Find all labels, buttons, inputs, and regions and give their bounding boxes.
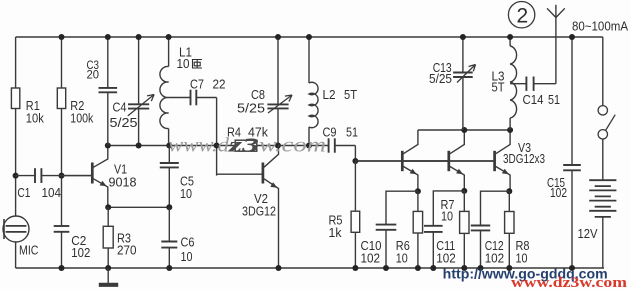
- capacitor C10: [376, 191, 418, 268]
- label R2 100k: [70, 98, 93, 125]
- label MIC: [19, 243, 39, 258]
- trimmer capacitor C13 5/25: [453, 37, 475, 130]
- node V2 emitter bottom: [276, 265, 282, 271]
- node R7 bottom: [461, 265, 467, 271]
- svg-text:102: 102: [550, 185, 567, 200]
- svg-text:270: 270: [117, 243, 137, 258]
- svg-text:22: 22: [213, 77, 226, 92]
- node C8/V2 collector junction: [275, 143, 281, 149]
- svg-text:5T: 5T: [492, 80, 505, 95]
- label C7 22: [190, 77, 226, 92]
- node input junction B: [59, 173, 65, 179]
- svg-text:C6: C6: [181, 235, 195, 250]
- resistor R5: [351, 161, 360, 268]
- node C10 bottom: [383, 265, 389, 271]
- node V3b emitter junction: [461, 188, 467, 194]
- node C5/C6 junction: [166, 204, 172, 210]
- watermark http://www.go-gddq.com: [443, 266, 608, 281]
- node C3 top: [105, 34, 111, 40]
- trimmer capacitor C4 5/25: [128, 37, 154, 146]
- capacitor C9: [329, 138, 356, 152]
- ground: [99, 268, 118, 285]
- svg-text:10k: 10k: [26, 110, 44, 125]
- wire R2/C2 column: [61, 37, 63, 268]
- label C4 5/25: [110, 99, 138, 130]
- label C1 104: [17, 185, 61, 200]
- label circled 2: [508, 2, 534, 28]
- node L3 top: [507, 34, 513, 40]
- label C9 51: [323, 124, 359, 139]
- svg-text:10: 10: [177, 56, 190, 71]
- svg-text:5/25: 5/25: [429, 71, 452, 86]
- node C15 bottom: [569, 265, 575, 271]
- capacitor C5: [160, 146, 179, 208]
- node R8 bottom: [506, 265, 512, 271]
- label R5 1k: [329, 213, 343, 240]
- label R3 270: [117, 230, 137, 257]
- node C2 bottom: [59, 265, 65, 271]
- svg-text:9018: 9018: [109, 174, 137, 189]
- capacitor C15: [563, 37, 581, 268]
- svg-text:102: 102: [436, 250, 456, 265]
- label R8 10: [516, 238, 530, 265]
- transistor V3a: [355, 130, 418, 191]
- svg-text:10: 10: [396, 250, 408, 265]
- node C11 bottom: [430, 265, 436, 271]
- transistor V2 3DG12: [217, 146, 279, 269]
- svg-text:C14: C14: [523, 92, 544, 107]
- label L2 5T: [323, 87, 358, 102]
- wire collector node to L2: [278, 145, 329, 147]
- resistor R3: [103, 207, 113, 268]
- label C13 5/25: [429, 60, 452, 86]
- node R2 top: [59, 34, 65, 40]
- wire to V3 base: [355, 146, 494, 162]
- label C11 102: [436, 238, 456, 265]
- svg-text:3DG12: 3DG12: [242, 204, 276, 219]
- transistor V3c: [402, 130, 510, 191]
- resistor R2: [57, 88, 65, 109]
- inductor L2 5T: [309, 37, 318, 146]
- node V3c emitter junction: [506, 188, 512, 194]
- node V3c/L3 junction: [507, 127, 513, 133]
- svg-text:3DG12x3: 3DG12x3: [503, 151, 545, 166]
- node input junction A: [13, 173, 19, 179]
- label V1 9018: [109, 162, 137, 190]
- svg-text:104: 104: [42, 185, 62, 200]
- node C8 top: [275, 34, 281, 40]
- label R7 10: [441, 197, 455, 224]
- node C6 bottom: [166, 265, 172, 271]
- label 12V: [578, 226, 598, 241]
- svg-text:w.com: w.com: [259, 135, 326, 157]
- svg-text:100k: 100k: [70, 110, 93, 125]
- wire right column top: [602, 37, 604, 106]
- resistor R4: [217, 140, 278, 151]
- capacitor C2: [54, 226, 70, 232]
- battery 12V: [589, 180, 616, 268]
- svg-text:51: 51: [548, 92, 560, 107]
- svg-text:102: 102: [71, 245, 90, 260]
- svg-text:10: 10: [180, 186, 192, 201]
- svg-text:www.dz3w.com: www.dz3w.com: [511, 275, 627, 289]
- label 80~100mA: [572, 18, 628, 33]
- node V1 collector junction: [105, 143, 111, 149]
- trimmer capacitor C8 5/25: [267, 37, 292, 146]
- capacitor C11: [424, 191, 464, 268]
- svg-text:L2: L2: [323, 87, 336, 102]
- node R5 bottom: [352, 265, 358, 271]
- svg-text:5T: 5T: [344, 87, 357, 102]
- label V3 3DG12x3: [503, 140, 545, 166]
- node V3 base junction: [352, 158, 358, 164]
- watermark www.dz3w.com (center): [168, 135, 326, 157]
- svg-text:5/25: 5/25: [110, 115, 138, 130]
- svg-text:2: 2: [517, 5, 529, 28]
- node L2 bottom: [306, 143, 312, 149]
- svg-text:10: 10: [516, 250, 528, 265]
- wire bottom ground rail: [16, 267, 604, 269]
- node V3a emitter junction: [415, 188, 421, 194]
- wire top supply rail: [16, 36, 603, 38]
- label C6 10: [181, 235, 195, 265]
- inductor L1 10 turns: [160, 37, 169, 146]
- node C15 top: [569, 34, 575, 40]
- switch S (open): [598, 106, 615, 139]
- transistor V3b: [402, 130, 464, 191]
- node L2 top: [306, 34, 312, 40]
- capacitor C1: [35, 168, 41, 183]
- transistor V1 9018: [62, 146, 108, 208]
- wire V1 emitter rail: [108, 206, 169, 208]
- label C14 51: [523, 92, 561, 107]
- wire input signal: [16, 175, 93, 177]
- svg-text:z3: z3: [227, 135, 259, 157]
- svg-text:MIC: MIC: [19, 243, 39, 258]
- wire V3 collector rail: [418, 129, 510, 131]
- node C7/V2 base junction: [214, 143, 220, 149]
- svg-text:51: 51: [346, 124, 358, 139]
- label C3 20: [87, 58, 100, 82]
- capacitor C3: [99, 37, 118, 146]
- node L1 top: [166, 34, 172, 40]
- label R6 10: [396, 238, 410, 265]
- svg-text:C7: C7: [190, 77, 204, 92]
- wire switch to battery: [602, 139, 604, 180]
- wire V1 collector rail: [108, 145, 217, 147]
- resistor R7: [460, 191, 469, 268]
- label C12 102: [485, 238, 505, 265]
- label R1 10k: [26, 98, 44, 125]
- svg-text:1k: 1k: [329, 225, 342, 240]
- node V1 emitter junction: [105, 204, 111, 210]
- label C2 102: [71, 233, 90, 260]
- label C5 10: [180, 174, 194, 202]
- node C12 bottom: [478, 265, 484, 271]
- svg-text:12V: 12V: [578, 226, 598, 241]
- svg-text:www.d: www.d: [168, 135, 230, 157]
- node R3 bottom: [105, 265, 111, 271]
- svg-text:80~100mA: 80~100mA: [572, 18, 628, 33]
- node V3b collector junction: [461, 127, 467, 133]
- antenna: [547, 5, 565, 84]
- capacitor C12: [471, 191, 510, 268]
- resistor R1: [11, 88, 19, 109]
- capacitor C7: [169, 90, 217, 106]
- label V2 3DG12: [242, 191, 276, 219]
- watermark www.dz3w.com (red): [511, 275, 627, 289]
- wire C7 to V2 base: [216, 98, 218, 176]
- svg-text:102: 102: [485, 250, 505, 265]
- label C10 102: [361, 238, 382, 265]
- svg-text:C1: C1: [17, 185, 30, 200]
- node L1 bottom: [166, 143, 172, 149]
- node C13 top: [460, 34, 466, 40]
- node R6 bottom: [415, 265, 421, 271]
- svg-text:102: 102: [361, 250, 381, 265]
- node C4 top: [136, 34, 142, 40]
- label L1 10turns: [177, 45, 203, 72]
- svg-text:10: 10: [441, 209, 453, 224]
- wire left column (R1/MIC branch): [15, 37, 17, 268]
- resistor R6: [413, 191, 422, 268]
- svg-text:20: 20: [87, 67, 100, 81]
- microphone MIC: [3, 216, 29, 242]
- inductor L3 5T: [510, 37, 516, 130]
- svg-text:10: 10: [181, 249, 193, 264]
- label C15 102: [547, 175, 567, 200]
- resistor R8: [505, 191, 514, 268]
- label C8 5/25: [237, 87, 265, 116]
- label R4 47k: [227, 125, 268, 140]
- label L3 5T: [492, 69, 505, 95]
- capacitor C6: [161, 207, 177, 268]
- capacitor C14: [510, 77, 556, 91]
- svg-text:C4: C4: [113, 99, 127, 114]
- node C4 bottom: [136, 143, 142, 149]
- svg-text:5/25: 5/25: [237, 101, 265, 116]
